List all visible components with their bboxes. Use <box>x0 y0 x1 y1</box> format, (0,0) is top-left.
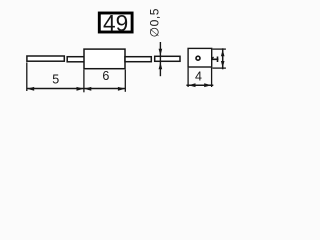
lead diameter arrow up <box>159 62 163 69</box>
extension line right of square (bottom) <box>212 67 226 69</box>
arrow right tip (dim 6) <box>118 87 125 91</box>
extension line left (x=26.8) <box>26 62 28 91</box>
left lead segment 2 (after break) <box>67 57 84 62</box>
right lead segment 1 <box>125 57 151 62</box>
lead diameter arrow down <box>159 49 163 56</box>
lead diameter dimension line (vertical) <box>159 42 161 76</box>
extension line under body right edge <box>124 70 126 92</box>
lead cross-section circle <box>196 56 200 60</box>
extension line below square (left) <box>187 68 189 87</box>
dimension line 4 horizontal <box>186 84 213 86</box>
arrow right tip (dim 5) <box>77 87 84 91</box>
dimension line 5 / 6 <box>27 88 126 90</box>
arrow left tip (dim 5) <box>27 87 34 91</box>
dimension line 4 vertical <box>222 48 224 69</box>
extension line under body left edge <box>83 70 85 93</box>
svg-text:6: 6 <box>102 69 109 83</box>
svg-text:∅0,5: ∅0,5 <box>147 8 161 37</box>
figure number box 49 <box>99 13 132 32</box>
svg-text:5: 5 <box>52 73 59 87</box>
extension line below square (right) <box>211 68 213 87</box>
right lead segment 2 (after break) <box>155 56 180 61</box>
arrow down (dim 4 vertical) <box>221 61 225 68</box>
svg-text:49: 49 <box>103 10 128 36</box>
arrow right tip (dim 4 horizontal) <box>204 83 211 87</box>
svg-text:4: 4 <box>195 70 202 84</box>
extension line right of square (top) <box>212 48 226 50</box>
dimension text 4 (rotated, right of square) <box>211 57 218 63</box>
arrow left tip (dim 4 horizontal) <box>188 83 195 87</box>
arrow left tip (dim 6) <box>84 87 91 91</box>
component body <box>84 49 125 69</box>
end view square <box>188 48 212 67</box>
left lead segment 1 <box>27 56 64 61</box>
arrow up (dim 4 vertical) <box>221 50 225 57</box>
